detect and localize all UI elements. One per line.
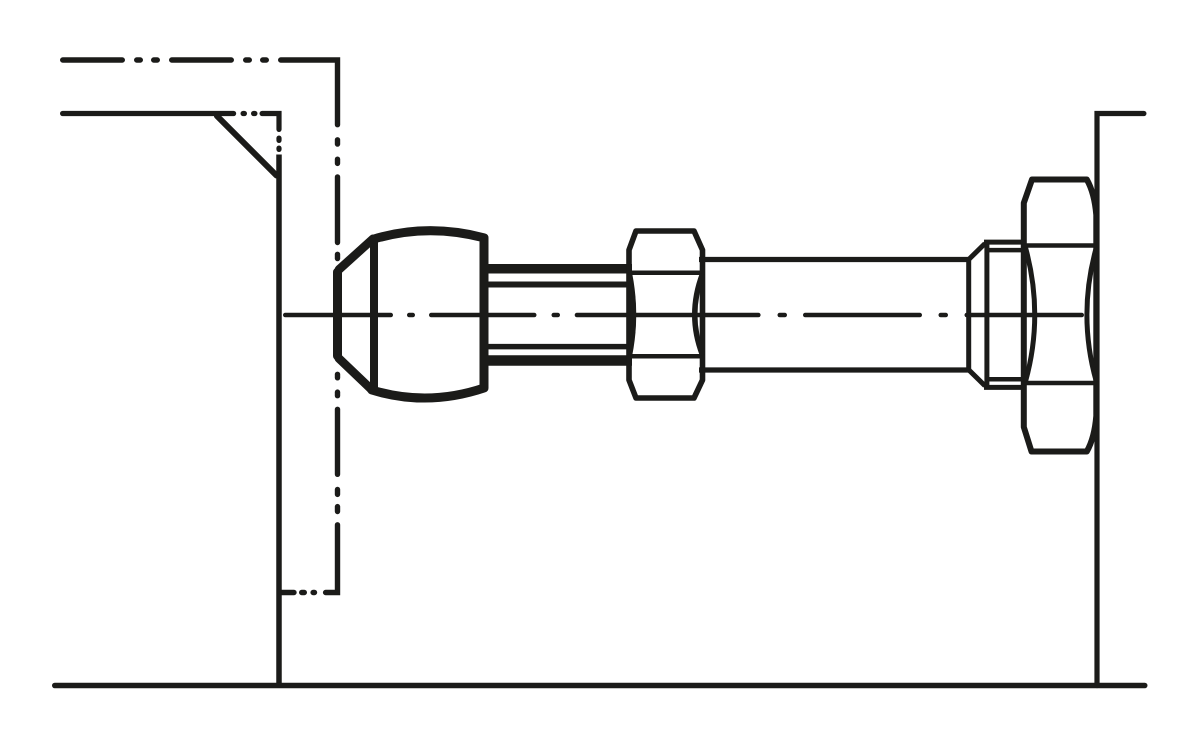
- hex head outline right: [1024, 180, 1097, 452]
- phantom line vertical upper dots: [282, 140, 338, 593]
- collar shaft end face: [966, 257, 971, 373]
- ball pad upper chamfer: [339, 239, 373, 270]
- hex head middle face arc left: [1026, 248, 1035, 382]
- collar bottom line: [984, 385, 1026, 390]
- collar chamfer top: [969, 244, 985, 260]
- hex nut face line lower: [628, 354, 704, 359]
- wall top edge phantom continuation to theoretical corner: [243, 114, 279, 150]
- spindle shaft top line: [699, 257, 969, 262]
- thread crest bottom: [486, 355, 632, 366]
- wall chamfer diagonal: [217, 116, 277, 176]
- collar inner top line: [988, 248, 1026, 253]
- ball body outline: [372, 231, 484, 398]
- collar chamfer bottom: [969, 370, 985, 386]
- collar left face: [984, 244, 989, 386]
- hex nut M outline: [629, 231, 703, 398]
- phantom bottom corner dash: [326, 525, 338, 593]
- phantom line vertical lower segments: [335, 374, 340, 378]
- ground / base line: [55, 683, 1145, 689]
- hex nut middle face arc left: [630, 274, 634, 355]
- hex head middle face arc right: [1087, 248, 1096, 382]
- collar top line: [984, 240, 1026, 245]
- ball pad flat face: [333, 272, 342, 356]
- wall left vertical edge: [276, 155, 282, 686]
- hex head face line lower: [1024, 381, 1096, 386]
- phantom bottom horizontal run: [313, 590, 314, 595]
- ball pad lower chamfer: [339, 359, 372, 391]
- phantom line top corner dash: [281, 60, 338, 125]
- hex head face line upper: [1024, 243, 1096, 248]
- ball pad tangent vertical: [370, 239, 378, 390]
- phantom line top horizontal: [63, 57, 278, 62]
- thread root top: [488, 282, 632, 288]
- right wall edge: [1097, 114, 1144, 686]
- hex nut middle face arc right: [695, 274, 703, 355]
- spindle shaft bottom line: [699, 367, 969, 372]
- centerline (axis): [285, 313, 1081, 318]
- thread crest top: [486, 264, 632, 274]
- thread root bottom: [488, 344, 632, 350]
- collar inner bottom line: [988, 377, 1026, 382]
- hex nut face line upper: [628, 270, 704, 275]
- wall top edge solid: [63, 111, 234, 116]
